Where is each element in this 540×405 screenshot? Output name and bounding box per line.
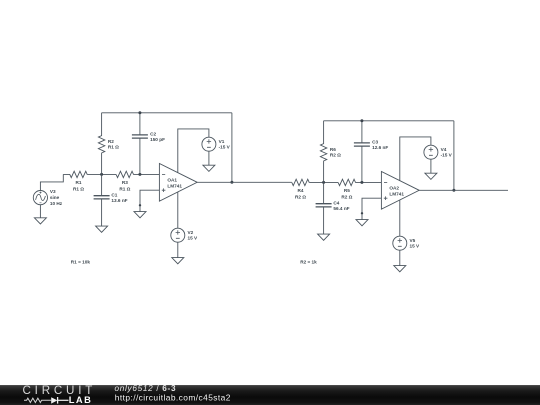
resistor R2: [98, 113, 119, 175]
svg-text:R1 Ω: R1 Ω: [108, 145, 119, 150]
wire: [309, 181, 338, 183]
logo resistor: [24, 398, 51, 402]
svg-text:-15 V: -15 V: [219, 145, 231, 150]
voltage source V2: [171, 228, 198, 242]
wire: [208, 151, 210, 165]
wire: [399, 250, 401, 265]
svg-text:C3: C3: [372, 139, 378, 144]
wire: [177, 242, 179, 257]
ground: [318, 234, 330, 240]
svg-text:-15 V: -15 V: [441, 153, 453, 158]
footer bar: [0, 385, 540, 405]
svg-text:R4: R4: [298, 188, 304, 193]
svg-text:150 pF: 150 pF: [150, 137, 165, 142]
node C2 top: [138, 111, 141, 114]
wire: [134, 173, 160, 175]
svg-text:56.4 nF: 56.4 nF: [333, 206, 349, 211]
svg-text:R2 Ω: R2 Ω: [295, 194, 306, 199]
wire: [356, 181, 382, 183]
ground: [134, 212, 146, 218]
voltage source V3: [33, 189, 63, 206]
svg-text:R1 Ω: R1 Ω: [73, 186, 84, 191]
resistor R5: [338, 179, 356, 199]
svg-text:sine: sine: [50, 195, 60, 200]
node output OA2: [452, 189, 455, 192]
ground: [394, 266, 406, 272]
op-amp OA2: [381, 172, 419, 210]
svg-text:V5: V5: [410, 238, 416, 243]
svg-text:R3: R3: [122, 180, 128, 185]
svg-text:V1: V1: [219, 139, 225, 144]
op-amp OA1: [159, 164, 197, 202]
svg-text:R1 Ω: R1 Ω: [119, 186, 130, 191]
svg-text:OA1: OA1: [167, 177, 177, 182]
svg-text:OA2: OA2: [389, 185, 399, 190]
svg-text:15 V: 15 V: [188, 236, 199, 241]
voltage source V4: [424, 145, 453, 159]
wire: [232, 181, 292, 183]
wire: [430, 159, 432, 173]
svg-text:12.6 nF: 12.6 nF: [372, 145, 388, 150]
svg-text:10 Hz: 10 Hz: [50, 201, 63, 206]
node D: [322, 181, 325, 184]
capacitor C4: [316, 182, 350, 234]
svg-text:R2 = 1k: R2 = 1k: [300, 260, 317, 265]
node output OA1: [230, 181, 233, 184]
svg-text:LM741: LM741: [389, 191, 404, 196]
svg-text:C4: C4: [333, 201, 339, 206]
node A: [100, 173, 103, 176]
svg-text:V2: V2: [188, 230, 194, 235]
ground: [425, 173, 437, 179]
voltage source V1: [202, 137, 231, 151]
node C3 top: [360, 119, 363, 122]
voltage source V5: [393, 236, 420, 250]
ground: [203, 165, 215, 171]
wire: [399, 200, 401, 236]
svg-text:R2 Ω: R2 Ω: [330, 153, 341, 158]
node plus gnd 2: [361, 212, 363, 214]
wire: [140, 190, 159, 211]
svg-text:R2: R2: [108, 139, 114, 144]
wire: [87, 173, 116, 175]
svg-text:R1: R1: [76, 180, 82, 185]
capacitor C2: [132, 113, 165, 175]
node plus gnd: [139, 204, 141, 206]
wire: [231, 113, 233, 183]
wire: [453, 121, 455, 191]
ground: [96, 226, 108, 232]
logo diode: [51, 397, 57, 403]
svg-text:R5: R5: [344, 188, 350, 193]
resistor R3: [116, 171, 134, 191]
capacitor C1: [94, 174, 128, 226]
wire: [178, 129, 209, 173]
svg-text:R1 = 10k: R1 = 10k: [71, 260, 91, 265]
wire: [197, 181, 232, 183]
svg-text:R6: R6: [330, 147, 336, 152]
wire: [419, 189, 508, 191]
resistor R6: [320, 121, 341, 183]
svg-text:C2: C2: [150, 131, 156, 136]
wire: [102, 112, 232, 114]
svg-text:LAB: LAB: [69, 395, 93, 405]
wire: [177, 192, 179, 228]
svg-text:V3: V3: [50, 189, 56, 194]
svg-text:http://circuitlab.com/c45sta2: http://circuitlab.com/c45sta2: [115, 393, 231, 403]
resistor R4: [292, 179, 310, 199]
resistor R1: [63, 171, 87, 191]
svg-text:15 V: 15 V: [410, 244, 421, 249]
node E: [360, 181, 363, 184]
ground: [356, 220, 368, 226]
wire: [40, 174, 63, 190]
svg-text:R2 Ω: R2 Ω: [341, 194, 352, 199]
svg-text:LM741: LM741: [167, 183, 182, 188]
capacitor C3: [354, 121, 388, 183]
node B: [138, 173, 141, 176]
svg-text:C1: C1: [111, 193, 117, 198]
wire: [362, 198, 381, 219]
svg-text:V4: V4: [441, 147, 447, 152]
wire: [400, 137, 431, 181]
ground: [34, 218, 46, 224]
svg-text:13.6 nF: 13.6 nF: [111, 198, 127, 203]
ground: [172, 258, 184, 264]
wire: [39, 205, 41, 218]
wire: [324, 120, 454, 122]
